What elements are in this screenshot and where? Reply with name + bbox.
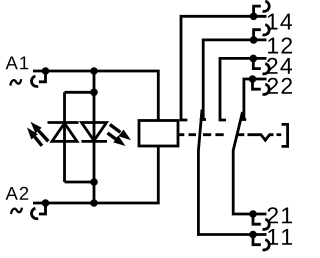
AC symbol at A1 [10, 79, 21, 85]
mechanical linkage flexible V-link [248, 135, 274, 141]
wire LED1 vertical [63, 92, 66, 182]
junction dot terminal 24 [250, 55, 258, 63]
terminal 11 clamp stub [253, 235, 261, 245]
pin label 24 [267, 58, 292, 74]
NC contact 1 seat [200, 118, 206, 121]
LED D1 emission arrow 2 head [27, 128, 38, 140]
terminal 14 clamp claw [263, 1, 270, 11]
terminal 14 clamp stub [254, 6, 261, 16]
relay coil K1 [139, 121, 178, 147]
junction dot terminal 14 [250, 12, 258, 20]
terminal 24 clamp claw [263, 64, 270, 74]
wire terminal 22 to NC contact 2 [244, 79, 267, 120]
pin label 12 [268, 37, 292, 53]
contact blade 2 and wire to terminal 21 [233, 112, 266, 214]
contact blade 1 and wire to terminal 11 [198, 110, 266, 235]
mechanical linkage last dash [277, 133, 282, 136]
terminal 21 clamp claw [263, 219, 270, 229]
LED D1 emission arrow 2 shaft [35, 137, 42, 146]
LED D2 triangle [82, 123, 107, 141]
wire terminal 14 to NO contact 1 [181, 16, 267, 120]
terminal 22 clamp claw [263, 84, 270, 94]
LED D2 cathode bar [82, 140, 108, 143]
LED D1 emission arrow 1 shaft [39, 131, 49, 142]
pin label 14 [268, 14, 292, 30]
wire A2 rail to coil bottom [33, 146, 158, 203]
LED D2 emission arrow 2 head [113, 136, 125, 146]
terminal 11 clamp claw [263, 240, 270, 250]
junction dot at A1 terminal [42, 67, 50, 75]
node A1 label [6, 56, 29, 69]
mechanical anchor bracket [282, 124, 288, 146]
terminal A1 clamp claw [31, 76, 38, 86]
node A2 label [6, 187, 29, 200]
junction dot at A2 terminal [42, 199, 50, 207]
NC contact 2 seat [240, 118, 246, 121]
wire A1 rail to coil [33, 71, 158, 121]
pin label 11 [268, 229, 292, 245]
junction dot terminal 21 [249, 210, 257, 218]
wire terminal 24 to NO contact 2 [220, 58, 267, 120]
wire LED2 vertical branch [93, 71, 96, 203]
terminal 24 clamp stub [253, 58, 260, 68]
terminal A2 clamp stub [39, 203, 46, 214]
wire terminal 12 to NC contact 1 [203, 40, 266, 120]
junction dot terminal 12 [250, 36, 258, 44]
wire LED1 bottom branch [65, 181, 95, 184]
terminal A1 clamp stub [39, 71, 46, 82]
terminal 12 clamp stub [254, 30, 261, 40]
LED D2 emission arrow 1 head [118, 130, 131, 141]
junction dot4 LED branch bottom [90, 199, 98, 207]
LED D2 emission arrow 1 shaft [110, 125, 120, 133]
LED D1 triangle [52, 123, 77, 141]
AC symbol at A2 [11, 208, 22, 214]
LED D1 cathode bar [48, 121, 79, 124]
wire LED1 top branch [65, 91, 95, 94]
junction dot terminal 22 [249, 75, 257, 83]
junction node top of LED branch [90, 67, 98, 75]
LED D1 emission arrow 1 head [31, 122, 42, 134]
terminal 21 clamp stub [253, 214, 261, 224]
terminal 12 clamp claw [263, 25, 270, 35]
terminal 22 clamp stub [253, 79, 261, 89]
terminal A2 clamp claw [31, 208, 38, 218]
pin label 21 [268, 207, 293, 223]
pin label 22 [268, 78, 292, 94]
LED D2 emission arrow 2 shaft [108, 133, 116, 139]
mechanical linkage dashed line [179, 133, 245, 136]
junction dot terminal 11 [249, 231, 257, 239]
junction dot3 LED1 tee bottom [90, 178, 98, 186]
junction dot2 LED1 tee top [90, 89, 98, 97]
